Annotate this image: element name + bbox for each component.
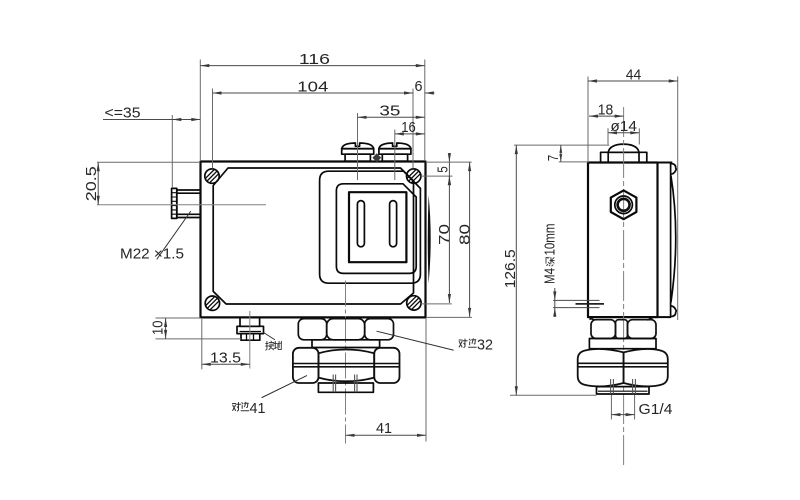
dim dia14 <box>607 128 609 144</box>
svg-text:32: 32 <box>477 337 493 354</box>
side port collar <box>597 379 650 394</box>
screw TL <box>205 169 219 183</box>
screw BL <box>205 296 219 310</box>
side cap collar <box>601 152 647 162</box>
left connector body <box>177 190 201 218</box>
svg-text:104: 104 <box>297 78 328 95</box>
svg-text:44: 44 <box>626 66 642 83</box>
dim 10 <box>156 317 201 319</box>
svg-text:ø14: ø14 <box>610 118 637 135</box>
big nut front <box>293 348 400 383</box>
port collar front <box>318 375 373 393</box>
svg-text:18: 18 <box>598 101 614 118</box>
hex nut circles <box>615 196 633 214</box>
dim 116 <box>199 60 201 161</box>
side washer <box>589 339 656 349</box>
svg-text:M4: M4 <box>542 268 559 284</box>
top screw left <box>342 143 374 161</box>
svg-text:5: 5 <box>435 166 452 173</box>
left connector thread strip <box>172 188 177 218</box>
svg-text:35: 35 <box>379 102 400 119</box>
screw BR <box>407 296 421 310</box>
port centerline front <box>345 281 347 444</box>
side cap dome <box>608 144 639 152</box>
leader duibian41 <box>262 376 307 398</box>
svg-text:41: 41 <box>250 400 266 417</box>
dim 6 <box>425 92 435 94</box>
panel mid <box>336 184 416 274</box>
dim 13.5 <box>201 319 203 369</box>
side step <box>590 317 651 320</box>
panel outer <box>320 171 421 283</box>
dim 18 <box>589 115 624 117</box>
dim 126.5 <box>510 394 597 396</box>
svg-text:13.5: 13.5 <box>210 350 241 367</box>
connector centerline <box>97 204 266 206</box>
svg-text:20.5: 20.5 <box>83 166 100 201</box>
svg-text:16: 16 <box>401 119 416 136</box>
cover edge sliver <box>428 195 431 284</box>
upper nut front <box>298 319 393 340</box>
ground terminal centerline <box>249 311 251 369</box>
text jiedi <box>266 341 282 350</box>
top screw right <box>379 143 411 161</box>
dim <=35 <box>171 115 173 188</box>
svg-text:G1/4: G1/4 <box>639 401 673 418</box>
washer front <box>312 340 380 348</box>
body <box>201 162 426 318</box>
side big nut <box>578 349 668 386</box>
svg-text:80: 80 <box>456 224 473 245</box>
side upper nut <box>591 320 656 339</box>
dim 70 <box>421 303 452 305</box>
svg-text:6: 6 <box>415 78 423 95</box>
dim 35 <box>357 113 359 180</box>
svg-text:116: 116 <box>299 51 330 68</box>
hex nut side <box>611 190 637 219</box>
svg-text:10mm: 10mm <box>542 224 559 256</box>
side body <box>588 163 658 318</box>
text duibian41 <box>233 402 249 411</box>
dim 41 bottom <box>425 318 427 442</box>
svg-text:41: 41 <box>376 420 392 437</box>
inner outline <box>213 168 413 304</box>
screw TR <box>407 169 421 183</box>
text duibian32 <box>459 339 476 348</box>
dim 20.5 <box>97 161 200 163</box>
side cover plate <box>658 163 677 318</box>
svg-text:10: 10 <box>150 321 167 336</box>
dim 16 <box>394 130 396 181</box>
dim 80 <box>426 161 472 163</box>
side centerline <box>623 107 625 466</box>
svg-text:7: 7 <box>545 155 562 162</box>
leader duibian32 <box>377 331 453 350</box>
slot left <box>357 201 364 247</box>
dim G1/4 <box>610 395 612 420</box>
ground terminal <box>237 317 264 340</box>
svg-text:70: 70 <box>436 224 453 245</box>
svg-text:<=35: <=35 <box>105 105 141 122</box>
slot right <box>390 201 397 247</box>
leader M22x1.5 <box>157 212 191 260</box>
dim 44 <box>587 77 589 163</box>
svg-text:M22 ×1.5: M22 ×1.5 <box>120 246 184 263</box>
leader jiedi <box>264 333 275 340</box>
small screw between <box>372 153 381 162</box>
svg-text:126.5: 126.5 <box>502 249 519 288</box>
dim 5 <box>421 175 453 177</box>
M4 hole lines <box>553 300 599 307</box>
dim M4 deep 10mm <box>554 288 556 317</box>
panel window <box>349 192 406 262</box>
dim 7 <box>514 144 609 146</box>
dim 104 <box>212 89 214 169</box>
